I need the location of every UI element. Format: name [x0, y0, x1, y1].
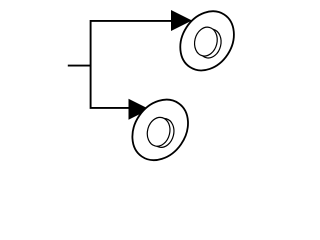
tire 1 hole back rim: [192, 25, 221, 59]
tire 1 (upper right): [169, 1, 244, 80]
tire 2 hole back rim: [144, 115, 173, 149]
tire 1 outer ellipse: [169, 1, 244, 80]
arrowhead to tire 1: [171, 10, 192, 31]
arrowhead to tire 2: [129, 99, 150, 120]
tire 2 outer ellipse: [121, 89, 199, 171]
tire 2 (lower middle): [121, 89, 199, 171]
wire: bracket (top branch, vertical, bottom branch): [91, 21, 173, 108]
tire 2 hole front rim (crescent): [148, 116, 177, 150]
wire: left stub: [68, 65, 91, 67]
tire 1 hole front rim (crescent): [195, 27, 224, 61]
